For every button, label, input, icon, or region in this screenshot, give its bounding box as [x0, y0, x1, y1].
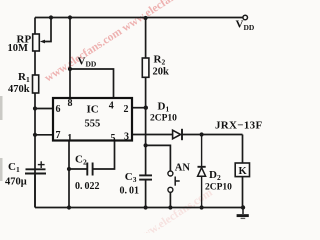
C1 plus sign: [38, 161, 45, 168]
svg-text:0. 022: 0. 022: [75, 181, 100, 192]
resistor R2: [142, 58, 149, 77]
node C3-rail: [144, 205, 148, 209]
svg-text:2: 2: [124, 104, 129, 115]
resistor RP: [33, 34, 40, 51]
wire RP wiper from top rail: [44, 18, 51, 42]
svg-text:K: K: [239, 166, 248, 177]
wire D2 column top: [201, 135, 203, 167]
wire R1 bottom down left column to bottom rail: [34, 93, 36, 208]
diode D1: [173, 130, 181, 139]
svg-text:IC: IC: [87, 104, 99, 116]
node C2 left: [67, 167, 71, 171]
wire pin 1 column: [68, 141, 70, 208]
node wiper-rail: [49, 15, 53, 19]
svg-text:470k: 470k: [8, 84, 30, 95]
svg-text:4: 4: [109, 101, 114, 112]
node K-rail: [241, 205, 245, 209]
svg-text:10M: 10M: [8, 43, 29, 54]
svg-text:555: 555: [85, 119, 101, 130]
node pin6-R1: [33, 106, 37, 110]
node AN-rail: [168, 205, 172, 209]
svg-text:2CP10: 2CP10: [205, 183, 232, 193]
wire left column top to RP: [34, 18, 36, 35]
wire top rail: [35, 17, 243, 19]
wire C1 bottom to rail: [34, 174, 36, 208]
diode D2: [198, 166, 206, 168]
node R2-rail: [144, 16, 148, 20]
wire bottom rail: [35, 207, 243, 209]
svg-text:6: 6: [56, 104, 61, 115]
resistor R1: [33, 75, 39, 93]
svg-text:AN: AN: [175, 162, 191, 173]
svg-text:8: 8: [68, 98, 73, 109]
wire pin 2: [132, 107, 146, 109]
pushbutton AN contacts: [168, 171, 173, 176]
node AN branch: [144, 143, 148, 147]
wire D2 bottom to rail: [201, 176, 203, 207]
wire D1 cathode to K corner: [182, 134, 243, 136]
wire C2 left plate: [69, 168, 87, 170]
watermark www.elecfans.com: [43, 0, 215, 240]
node pin1-rail: [67, 205, 71, 209]
svg-text:470μ: 470μ: [5, 177, 27, 188]
wire K column top: [242, 135, 244, 164]
wire pin 6: [35, 108, 53, 110]
svg-text:5: 5: [111, 133, 116, 144]
wire K bottom to rail: [242, 177, 244, 208]
svg-text:2CP10: 2CP10: [150, 114, 177, 124]
svg-text:1: 1: [67, 133, 72, 144]
svg-text:3: 3: [124, 132, 129, 143]
capacitor C3 plates: [139, 175, 152, 179]
wire R2 bottom to C3 top: [145, 77, 147, 175]
wire C2 right plate to pin 5: [93, 141, 114, 170]
node VDD split: [68, 67, 72, 71]
node VDD-rail: [68, 15, 72, 19]
wire VDD branch to pin 8: [69, 18, 71, 99]
VDD terminal circle: [243, 15, 248, 20]
svg-text:20k: 20k: [153, 67, 170, 78]
IC U1 555 timer body: [53, 98, 132, 141]
scan streaks left edge: [0, 96, 3, 120]
wire AN bottom to rail: [169, 192, 171, 207]
wire R2 column top: [145, 18, 147, 59]
wire C3 bottom to rail: [145, 180, 147, 208]
node pin2-R2: [144, 106, 148, 110]
svg-text:0. 01: 0. 01: [120, 186, 140, 197]
wire pin 7: [35, 134, 53, 136]
relay K box: [235, 163, 249, 177]
wire AN branch: [146, 145, 171, 171]
RP wiper arrow head: [40, 40, 45, 44]
node D2-rail: [200, 205, 204, 209]
capacitor C1 plates: [25, 169, 46, 173]
wire pin 3 to D1 anode: [132, 134, 173, 136]
ground: [237, 208, 249, 219]
node pin7-C1: [33, 133, 37, 137]
pushbutton AN actuator: [175, 177, 180, 186]
capacitor C2 plates: [87, 163, 92, 176]
svg-text:7: 7: [56, 130, 61, 141]
svg-text:JRX−13F: JRX−13F: [215, 120, 262, 132]
node D2 top: [200, 132, 204, 136]
wire RP bottom to R1 top: [34, 51, 36, 75]
wire VDD horizontal to pin 4: [70, 69, 114, 98]
